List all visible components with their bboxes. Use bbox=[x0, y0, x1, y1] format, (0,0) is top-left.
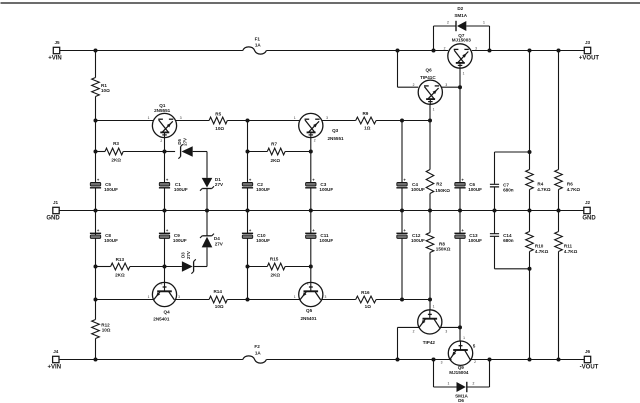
wire Q7 base node column to C6 bbox=[459, 87, 461, 182]
connector J1 (GND left) bbox=[46, 200, 60, 222]
pin numbers Q7 bbox=[444, 46, 478, 75]
junction R5-Q3 / C2 column bbox=[246, 119, 250, 123]
svg-text:R9: R9 bbox=[362, 111, 368, 116]
transistor Q4 2N5401 bbox=[152, 282, 176, 321]
connector J3 (+VOUT top right) bbox=[579, 40, 600, 62]
wire node A column bbox=[95, 121, 97, 183]
svg-text:1A: 1A bbox=[255, 350, 262, 355]
zener D4 27V bbox=[200, 211, 224, 248]
wire D5 to corner bbox=[193, 152, 207, 178]
resistor R5 10 ohm bbox=[209, 112, 227, 132]
fuse F2 1A bbox=[243, 344, 267, 363]
svg-text:R3: R3 bbox=[113, 141, 119, 146]
junction raw rail / Q6 riser bbox=[396, 49, 400, 53]
svg-text:4.7KΩ: 4.7KΩ bbox=[567, 187, 581, 192]
svg-text:2: 2 bbox=[447, 21, 449, 25]
svg-text:F2: F2 bbox=[254, 344, 260, 349]
wire -VOUT rail Q9 to J6 bbox=[471, 359, 585, 361]
resistor R10 4.7K bbox=[526, 211, 549, 360]
svg-text:Q6: Q6 bbox=[426, 68, 433, 73]
svg-text:27V: 27V bbox=[215, 242, 224, 247]
capacitor C14 680n bbox=[490, 211, 530, 269]
svg-text:1: 1 bbox=[294, 295, 296, 299]
transistor Q1 2N5551 bbox=[152, 103, 176, 138]
wire D3 to corner bbox=[194, 247, 207, 266]
junction R16 / C12 column bbox=[400, 298, 404, 302]
svg-text:2: 2 bbox=[307, 282, 309, 286]
junction node B / R13 bbox=[94, 265, 98, 269]
resistor R3 2K bbox=[96, 141, 124, 162]
svg-text:100UF: 100UF bbox=[104, 238, 118, 243]
svg-text:100UF: 100UF bbox=[173, 238, 187, 243]
svg-text:2: 2 bbox=[314, 139, 316, 143]
wire Q3 base lead bbox=[310, 138, 312, 152]
svg-text:Q5: Q5 bbox=[306, 308, 313, 313]
resistor R11 4.7K bbox=[555, 211, 578, 360]
zener D1 27V bbox=[200, 177, 224, 210]
top border line bbox=[1, 2, 640, 4]
svg-text:TIP42: TIP42 bbox=[423, 340, 436, 345]
svg-text:D5: D5 bbox=[177, 138, 182, 144]
svg-text:+VIN: +VIN bbox=[48, 56, 62, 62]
wire Q6 emitter to Q7 base node bbox=[441, 86, 460, 88]
svg-text:2KΩ: 2KΩ bbox=[271, 158, 281, 163]
svg-text:J5: J5 bbox=[54, 40, 60, 45]
svg-text:D4: D4 bbox=[214, 236, 220, 241]
resistor R14 10 ohm bbox=[209, 289, 227, 309]
svg-text:4.7KΩ: 4.7KΩ bbox=[564, 249, 578, 254]
svg-text:3: 3 bbox=[441, 360, 443, 364]
pin numbers Q6 bbox=[413, 83, 448, 112]
svg-text:3: 3 bbox=[324, 295, 326, 299]
svg-text:150KΩ: 150KΩ bbox=[436, 247, 451, 252]
zener D3 27V bbox=[181, 251, 196, 274]
wire Q9 base lead to node bbox=[459, 327, 461, 341]
svg-text:150KΩ: 150KΩ bbox=[435, 188, 450, 193]
capacitor C12 100UF bbox=[396, 211, 425, 300]
junction Q5 base / C11 bbox=[309, 265, 313, 269]
junction -VOUT rail / R11 bbox=[557, 358, 561, 362]
svg-text:1: 1 bbox=[448, 382, 450, 386]
junction -VOUT rail / R10 bbox=[528, 358, 532, 362]
svg-text:Q4: Q4 bbox=[164, 310, 171, 315]
junction GND / R2 bbox=[428, 209, 432, 213]
capacitor C7 680n bbox=[490, 152, 530, 211]
junction node B / Q4 collector bbox=[94, 298, 98, 302]
junction Q8 base / R8 bbox=[428, 298, 432, 302]
wire R15 to Q5 base node bbox=[285, 266, 311, 268]
svg-text:2: 2 bbox=[413, 83, 415, 87]
capacitor C5 100UF bbox=[90, 177, 118, 210]
resistor R4 4.7K bbox=[526, 51, 551, 211]
svg-text:2KΩ: 2KΩ bbox=[271, 273, 281, 278]
pin numbers Q8 bbox=[413, 304, 448, 333]
wire Q1 base node to D5 bbox=[165, 151, 176, 153]
svg-text:1: 1 bbox=[433, 304, 435, 308]
capacitor C11 100UF bbox=[305, 211, 333, 267]
junction C2 column / R7 bbox=[246, 150, 250, 154]
svg-text:2: 2 bbox=[474, 360, 476, 364]
svg-text:R6: R6 bbox=[567, 181, 573, 186]
resistor R13 2K bbox=[96, 257, 130, 277]
svg-text:3: 3 bbox=[326, 116, 328, 120]
capacitor C2 100UF bbox=[242, 177, 270, 210]
wire column x247 bottom bbox=[247, 267, 249, 300]
junction GND / C6 bbox=[458, 209, 462, 213]
wire R7 to Q3 base node bbox=[285, 151, 311, 153]
junction raw rail / D2 left bbox=[432, 49, 436, 53]
svg-text:3: 3 bbox=[445, 329, 447, 333]
svg-text:2: 2 bbox=[413, 329, 415, 333]
svg-text:D3: D3 bbox=[181, 252, 186, 258]
svg-text:MJ15004: MJ15004 bbox=[449, 370, 469, 375]
pin numbers Q3 bbox=[294, 116, 328, 143]
svg-text:SM1A: SM1A bbox=[454, 13, 467, 18]
wire R3 to Q1 base node bbox=[123, 151, 164, 153]
junction C7 jog / R4 column bbox=[528, 150, 532, 154]
wire Q6 collector riser bbox=[398, 51, 419, 88]
junction C10 column / R15 bbox=[246, 265, 250, 269]
svg-text:D2: D2 bbox=[457, 6, 463, 11]
svg-text:680n: 680n bbox=[503, 187, 514, 192]
junction +VOUT rail / R6 bbox=[557, 49, 561, 53]
junction C14 jog / R10 column bbox=[528, 267, 532, 271]
svg-text:1: 1 bbox=[483, 21, 485, 25]
svg-text:R14: R14 bbox=[213, 289, 222, 294]
svg-text:R13: R13 bbox=[116, 257, 125, 262]
capacitor C10 100UF bbox=[242, 211, 270, 267]
wire Q5 emitter to R16 bbox=[322, 299, 356, 301]
capacitor C1 100UF bbox=[159, 152, 188, 211]
junction R14-Q5 / C10 column bbox=[246, 298, 250, 302]
wire Q4 base node to D3 bbox=[165, 266, 182, 268]
wire R9 to Q6 base column bbox=[376, 120, 430, 122]
svg-text:R5: R5 bbox=[215, 112, 221, 117]
junction R9 / C4 column bbox=[400, 119, 404, 123]
junction Q7 base / Q6 emitter bbox=[458, 85, 462, 89]
svg-text:100UF: 100UF bbox=[174, 187, 188, 192]
wire R13 to Q4 base node bbox=[130, 266, 165, 268]
svg-text:GND: GND bbox=[582, 216, 596, 222]
connector J6 (-VOUT bottom right) bbox=[580, 349, 599, 371]
svg-text:GND: GND bbox=[46, 216, 60, 222]
pin numbers Q1 bbox=[148, 116, 182, 143]
junction GND / C2 bbox=[246, 209, 250, 213]
pin numbers Q5 bbox=[294, 282, 327, 299]
junction +VOUT rail / D2 right bbox=[488, 49, 492, 53]
wire Q7 base lead to node bbox=[459, 68, 461, 87]
wire GND to C8 bbox=[95, 211, 97, 235]
svg-text:F1: F1 bbox=[255, 37, 261, 42]
wire R16 to Q8 base column bbox=[376, 299, 430, 301]
svg-text:1: 1 bbox=[148, 116, 150, 120]
svg-text:5: 5 bbox=[473, 344, 476, 349]
junction GND / C1 bbox=[163, 209, 167, 213]
svg-text:4.7KΩ: 4.7KΩ bbox=[535, 249, 549, 254]
svg-text:2N5551: 2N5551 bbox=[154, 108, 171, 113]
capacitor C4 100UF bbox=[396, 121, 425, 211]
svg-text:100UF: 100UF bbox=[319, 187, 333, 192]
svg-text:-VOUT: -VOUT bbox=[580, 365, 599, 371]
capacitor C13 100UF bbox=[454, 211, 482, 243]
junction GND / C3 bbox=[309, 209, 313, 213]
svg-text:R15: R15 bbox=[270, 257, 279, 262]
svg-text:R2: R2 bbox=[436, 182, 442, 187]
svg-text:J3: J3 bbox=[585, 40, 591, 45]
capacitor C9 100UF bbox=[159, 211, 187, 267]
resistor R9 1 ohm bbox=[356, 111, 376, 131]
wire Q5 base lead bbox=[310, 267, 312, 283]
diode D2 SM1A bbox=[434, 6, 490, 51]
svg-text:100UF: 100UF bbox=[468, 187, 482, 192]
svg-text:2KΩ: 2KΩ bbox=[111, 158, 121, 163]
svg-text:2: 2 bbox=[160, 139, 162, 143]
transistor Q6 TIP41C bbox=[418, 68, 442, 105]
junction -VOUT rail / D6 right bbox=[488, 358, 492, 362]
svg-text:100UF: 100UF bbox=[411, 238, 425, 243]
svg-text:3: 3 bbox=[180, 116, 182, 120]
svg-text:J6: J6 bbox=[585, 349, 591, 354]
wire GND rail bbox=[59, 210, 584, 212]
svg-text:R10: R10 bbox=[535, 244, 544, 249]
connector J2 (GND right) bbox=[582, 200, 596, 222]
resistor R12 10 ohm bbox=[92, 320, 111, 360]
svg-text:100UF: 100UF bbox=[256, 187, 270, 192]
junction GND / D1 bbox=[205, 209, 209, 213]
svg-text:R16: R16 bbox=[361, 290, 370, 295]
svg-text:10Ω: 10Ω bbox=[215, 304, 224, 309]
svg-text:1: 1 bbox=[433, 107, 435, 111]
svg-text:100UF: 100UF bbox=[319, 238, 333, 243]
wire column x247 top bbox=[247, 121, 249, 183]
wire Q9 base node column to C13 bbox=[459, 239, 461, 328]
svg-text:3: 3 bbox=[475, 46, 477, 50]
svg-text:2N5551: 2N5551 bbox=[328, 136, 345, 141]
junction GND / C5 bbox=[94, 209, 98, 213]
wire Q3 emitter to R9 bbox=[322, 120, 356, 122]
wire +VIN rail left segment bbox=[60, 50, 243, 52]
capacitor C3 100UF bbox=[305, 152, 333, 211]
svg-text:Q3: Q3 bbox=[332, 128, 339, 133]
junction -VIN rail / D6 left bbox=[432, 358, 436, 362]
capacitor C6 100UF bbox=[454, 177, 482, 210]
resistor R15 2K bbox=[248, 257, 286, 278]
svg-text:MJ15003: MJ15003 bbox=[452, 38, 472, 43]
wire raw rail F1 to Q7 bbox=[266, 50, 448, 52]
zener D5 27V bbox=[177, 138, 193, 159]
junction node A / Q1 collector bbox=[94, 119, 98, 123]
svg-text:1: 1 bbox=[463, 72, 465, 76]
junction -VIN rail / Q8 riser bbox=[396, 358, 400, 362]
svg-text:+VIN: +VIN bbox=[48, 365, 62, 371]
wire node column bottom bbox=[95, 267, 97, 320]
pin numbers Q4 bbox=[148, 282, 181, 299]
transistor Q7 MJ15003 bbox=[448, 33, 472, 68]
wire Q1 base lead bbox=[164, 138, 166, 152]
junction +VOUT rail / R4 bbox=[528, 49, 532, 53]
pin numbers Q9 bbox=[441, 336, 477, 364]
junction GND / R6 bbox=[557, 209, 561, 213]
diode D6 SM1A bbox=[434, 360, 490, 403]
junction -VIN rail / R12 bbox=[94, 358, 98, 362]
svg-text:27V: 27V bbox=[186, 251, 191, 259]
junction GND / C4 bbox=[400, 209, 404, 213]
junction Q3 base / C3 bbox=[309, 150, 313, 154]
resistor R16 1 ohm bbox=[356, 290, 376, 309]
capacitor C8 100UF bbox=[90, 228, 118, 266]
transistor Q3 2N5551 bbox=[299, 113, 344, 141]
junction node A / R3 bbox=[94, 150, 98, 154]
wire Q8 collector riser bbox=[398, 327, 419, 359]
svg-text:100UF: 100UF bbox=[411, 187, 425, 192]
svg-text:10Ω: 10Ω bbox=[102, 328, 111, 333]
svg-text:680n: 680n bbox=[503, 238, 514, 243]
junction Q6 base / R2 bbox=[428, 119, 432, 123]
svg-text:27V: 27V bbox=[183, 138, 188, 146]
transistor Q5 2N5401 bbox=[299, 282, 323, 321]
transistor Q8 TIP42 bbox=[418, 310, 442, 345]
junction raw rail / R1 bbox=[94, 49, 98, 53]
svg-text:2N5401: 2N5401 bbox=[301, 316, 318, 321]
wire raw rail F2 to Q9 bbox=[266, 359, 451, 361]
svg-text:+VOUT: +VOUT bbox=[579, 56, 600, 62]
svg-text:1: 1 bbox=[148, 295, 150, 299]
wire node A to Q1 collector bbox=[96, 120, 154, 122]
svg-text:3: 3 bbox=[178, 295, 180, 299]
svg-text:100UF: 100UF bbox=[468, 238, 482, 243]
svg-text:100UF: 100UF bbox=[256, 238, 270, 243]
resistor R8 150K bbox=[426, 211, 451, 300]
svg-text:R7: R7 bbox=[271, 142, 277, 147]
junction Q1 base / C1 bbox=[163, 150, 167, 154]
wire Q8 emitter to Q9 base node bbox=[441, 326, 460, 328]
wire Q6 base lead bbox=[429, 104, 431, 120]
connector J5 (+VIN top left) bbox=[48, 40, 62, 62]
svg-text:27V: 27V bbox=[215, 182, 224, 187]
wire Q4 base lead bbox=[164, 267, 166, 283]
resistor R6 4.7K bbox=[555, 51, 581, 211]
wire Q1 emitter to R5 bbox=[176, 120, 210, 122]
wire Q8 base lead bbox=[429, 300, 431, 310]
junction Q4 base / C9 bbox=[163, 265, 167, 269]
svg-text:2: 2 bbox=[444, 46, 446, 50]
svg-text:100UF: 100UF bbox=[104, 187, 118, 192]
svg-text:1A: 1A bbox=[255, 43, 262, 48]
wire +VOUT rail Q7 to J3 bbox=[472, 50, 584, 52]
svg-text:2: 2 bbox=[473, 381, 475, 385]
svg-text:2KΩ: 2KΩ bbox=[115, 272, 125, 277]
wire Q4 emitter to R14 bbox=[176, 299, 210, 301]
svg-text:D6: D6 bbox=[458, 398, 464, 403]
svg-text:R4: R4 bbox=[537, 181, 543, 186]
transistor Q9 MJ15004 bbox=[448, 341, 475, 375]
resistor R2 150K bbox=[426, 121, 450, 211]
svg-text:1Ω: 1Ω bbox=[364, 126, 371, 131]
fuse F1 1A bbox=[243, 37, 267, 54]
svg-text:2: 2 bbox=[161, 282, 163, 286]
svg-text:3: 3 bbox=[445, 83, 447, 87]
svg-text:J4: J4 bbox=[53, 349, 59, 354]
svg-text:TIP41C: TIP41C bbox=[420, 75, 436, 80]
resistor R1 10 ohm bbox=[92, 51, 110, 121]
wire R5 to Q3 bbox=[227, 120, 299, 122]
svg-text:R11: R11 bbox=[564, 244, 573, 249]
junction Q9 base / Q8 emitter bbox=[458, 325, 462, 329]
svg-text:1Ω: 1Ω bbox=[365, 304, 372, 309]
wire R14 to Q5 bbox=[227, 299, 299, 301]
svg-text:J1: J1 bbox=[53, 200, 59, 205]
resistor R7 2K bbox=[248, 142, 286, 163]
svg-text:1: 1 bbox=[294, 116, 296, 120]
svg-text:10Ω: 10Ω bbox=[215, 126, 224, 131]
wire node to Q4 bbox=[96, 299, 154, 301]
svg-text:4.7KΩ: 4.7KΩ bbox=[537, 187, 551, 192]
svg-text:1: 1 bbox=[463, 336, 465, 340]
wire -VIN rail left segment bbox=[59, 359, 243, 361]
svg-text:J2: J2 bbox=[585, 200, 591, 205]
svg-text:10Ω: 10Ω bbox=[101, 88, 110, 93]
junction GND / C7 bbox=[493, 209, 497, 213]
svg-text:2N5401: 2N5401 bbox=[153, 317, 170, 322]
junction GND / R4 bbox=[528, 209, 532, 213]
connector J4 (+VIN bottom left) bbox=[48, 349, 62, 371]
